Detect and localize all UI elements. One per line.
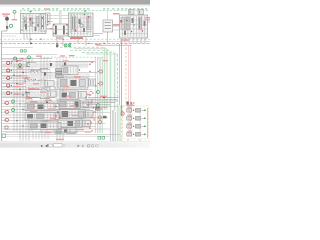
- valve block CV2: [58, 78, 90, 88]
- label L5 (red): [14, 93, 20, 94]
- valve block CV4: [58, 100, 80, 109]
- label D2 (red): [113, 24, 120, 26]
- solenoid S1 (textured): [56, 69, 64, 78]
- coupler Q4 (green): [24, 50, 26, 52]
- label BT1 (red): [45, 132, 51, 133]
- vertical taps left: [14, 57, 32, 131]
- mini valve MV4: [127, 133, 147, 137]
- label E1 (red): [145, 17, 151, 19]
- bridge block BR1: [52, 104, 59, 111]
- valve ext CV5b: [86, 111, 94, 118]
- label B1 (red): [56, 37, 62, 38]
- valve ext CV3b: [79, 92, 87, 99]
- label MV4 (red): [127, 131, 132, 132]
- valve ext CV6b: [83, 120, 91, 127]
- precomp marks: [127, 102, 129, 105]
- dark mark: [103, 116, 107, 119]
- label MV2 (red): [127, 115, 132, 116]
- valve block CV3: [60, 91, 91, 99]
- label MV1 (red): [127, 107, 132, 108]
- riser band RB3 (pale green): [114, 52, 116, 110]
- bridge block BR5: [48, 91, 56, 97]
- stack verticals: [56, 57, 58, 133]
- bridge block BR2: [52, 113, 59, 120]
- ref balloon B7: [99, 82, 102, 85]
- staircase wires: [82, 97, 119, 107]
- label BL3 (red): [42, 120, 49, 121]
- label BL2 (red): [30, 111, 38, 112]
- gauge G4 (green): [19, 64, 22, 67]
- valve block CV7: [55, 128, 75, 134]
- ref balloon B6: [99, 70, 102, 73]
- supply band (green): [59, 11, 61, 40]
- label BL1 (red): [30, 101, 38, 102]
- gauge G5 (green): [28, 56, 31, 59]
- label T1 (red): [2, 13, 10, 15]
- bridge block BR3: [55, 123, 61, 129]
- riser R6 (gray): [118, 44, 120, 114]
- risers to tank line: [20, 131, 63, 141]
- aux valves mid mesh: [38, 65, 52, 99]
- label CV3 (red): [80, 93, 88, 94]
- wire pump-block links: [2, 33, 20, 35]
- label CV4 (red): [81, 103, 89, 104]
- wire C to D: [93, 33, 103, 35]
- gauge G6 (green): [97, 91, 100, 94]
- junction J1: [30, 43, 32, 45]
- row backing bands: [26, 63, 93, 134]
- ref balloon B11: [5, 126, 8, 129]
- junction J2: [103, 96, 105, 98]
- detail box (orange dashed): [123, 106, 149, 139]
- valve spool dark marks: [44, 63, 82, 135]
- valve block BL2: [25, 113, 57, 121]
- wire D to E: [113, 25, 120, 27]
- wire A top: [20, 11, 22, 14]
- valve block B (check pair): [47, 24, 70, 46]
- wire detail box right: [147, 108, 149, 138]
- net rail N1 (green dashed): [20, 10, 149, 12]
- dark block center-right: [95, 107, 100, 111]
- gauge G9 (green): [12, 109, 15, 112]
- manifold block E: [120, 10, 148, 44]
- wire rows left-center: [2, 59, 97, 98]
- misc labels (red): [18, 8, 108, 140]
- valve block BL1: [25, 103, 57, 111]
- label P-line (red): [12, 19, 18, 20]
- net rail N6 (green dashed): [40, 56, 104, 58]
- valve ext CV2b: [89, 79, 96, 86]
- stack mesh rows: [55, 61, 95, 63]
- label MV3 (red): [127, 123, 132, 124]
- row link wires: [130, 108, 132, 136]
- label E2 (red): [121, 39, 129, 41]
- coupler Q2 (green): [68, 44, 70, 46]
- wire rows bottom-left: [2, 101, 118, 132]
- ref balloon B13: [99, 116, 102, 119]
- riser pair R9 (red): [128, 45, 130, 107]
- lower riser cluster (gray): [110, 110, 112, 141]
- wire pump to left bus: [2, 30, 7, 32]
- pager controls: [41, 144, 99, 148]
- wire fan to risers: [60, 47, 117, 54]
- riser R5 (gray dashed): [116, 54, 118, 112]
- node marker (green dot): [30, 11, 32, 13]
- canvas edge: [0, 141, 150, 143]
- lower green band: [117, 105, 121, 141]
- filter F1: [46, 13, 51, 24]
- check valve under pump: [6, 26, 8, 29]
- riser R4 (gray): [106, 49, 108, 110]
- top toolbar bar: [0, 0, 150, 4]
- label L4 (red): [13, 86, 19, 87]
- bridge block BR4: [45, 81, 54, 87]
- ref balloons left column: [7, 61, 12, 94]
- ref balloon B12: [121, 112, 124, 115]
- bus N2 (green dashed): [0, 38, 150, 40]
- valve ext CV7b: [67, 128, 76, 134]
- coupler Q3 (green): [21, 50, 23, 52]
- label CV5 (red): [87, 112, 95, 113]
- label D1 (red): [113, 13, 120, 15]
- ref balloon B9: [5, 110, 8, 113]
- gauge G7 (green): [97, 104, 100, 107]
- tank lines: [5, 133, 120, 135]
- mesh junction dots: [13, 61, 29, 127]
- status bar: [0, 142, 150, 147]
- wire row y54: [2, 54, 57, 56]
- directional valves left: [25, 63, 43, 98]
- mini valve MV2: [127, 117, 147, 121]
- riser R8b (orange dashed): [121, 106, 123, 141]
- red feed inside box: [128, 107, 130, 136]
- label DB (red): [127, 105, 135, 106]
- riser bundle center: [96, 57, 103, 133]
- label N6 (green): [69, 55, 75, 56]
- coupler Q1 (green): [65, 44, 67, 46]
- box riser stubs: [127, 139, 129, 141]
- label BT2 (red): [85, 131, 91, 132]
- stack verticals left: [40, 57, 42, 133]
- valve block C (main control): [69, 13, 94, 46]
- mini valve MV3: [127, 125, 147, 129]
- coupler Q5 (green): [98, 137, 101, 140]
- gauge G1 (green): [9, 24, 12, 27]
- label L1 (red): [16, 60, 22, 61]
- label CV0 (red): [63, 60, 69, 61]
- wire E stub top: [148, 21, 150, 23]
- gauge G8 (green): [12, 100, 15, 103]
- wire A-B link: [46, 15, 69, 17]
- riser band RB1 (pale green): [104, 47, 106, 110]
- ref balloon B10: [5, 118, 8, 121]
- label CV2 (red): [74, 76, 81, 77]
- pump P1: [5, 17, 9, 21]
- bus N3 (gray): [0, 40, 150, 42]
- label L2 (red): [17, 68, 23, 69]
- relief valve D: [103, 11, 113, 44]
- valve block CV5: [60, 110, 85, 119]
- valve block BL3: [28, 122, 58, 130]
- label CV6 (red): [84, 121, 92, 122]
- junction dots (red): [11, 39, 104, 129]
- label CV7 (red): [77, 129, 85, 130]
- strainer (green): [2, 134, 5, 138]
- ref balloon B8: [5, 101, 8, 104]
- row end red dots: [89, 62, 93, 132]
- wire G2 stem: [14, 13, 16, 19]
- gauge G2 (green): [13, 10, 16, 13]
- riser R7 (dark): [120, 41, 122, 116]
- valve block CV1: [62, 66, 80, 75]
- component under B: [56, 44, 58, 47]
- wire row y47 left: [2, 47, 33, 49]
- node labels on rail N1: [22, 8, 147, 9]
- label L3 (red): [16, 75, 22, 76]
- label C1 (red): [70, 37, 83, 39]
- gauge G3 (green): [14, 57, 17, 60]
- valve insert A2: [40, 14, 46, 31]
- valve block CV6: [58, 119, 82, 128]
- riser band RB2 (pale green): [109, 51, 111, 110]
- bus N5 (red segment): [96, 44, 132, 46]
- mini valve MV1: [127, 109, 147, 113]
- valve ext CV4b: [81, 101, 89, 108]
- valve block A (pilot group): [21, 11, 47, 44]
- riser R8 (orange dashed): [125, 43, 127, 106]
- bottom row wires: [5, 129, 75, 131]
- bus N4 (orange): [0, 42, 150, 44]
